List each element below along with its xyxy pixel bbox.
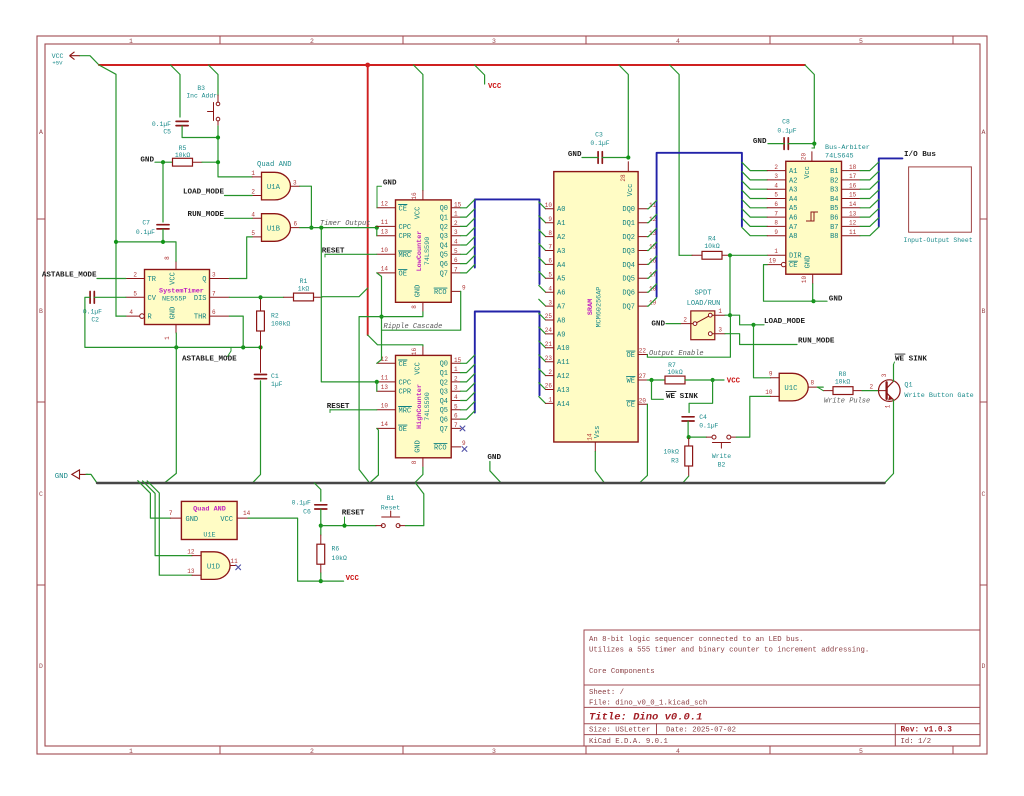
svg-text:8: 8 [548,230,552,237]
svg-text:1: 1 [164,336,171,340]
junction C7/VCC row [161,240,165,244]
svg-text:17: 17 [649,272,657,279]
svg-text:A6: A6 [789,215,797,223]
555 pin 2 TR [126,278,145,280]
bus entries 74LS645 B pins [860,162,879,171]
svg-text:LOAD_MODE: LOAD_MODE [183,188,224,196]
svg-text:Core Components: Core Components [589,668,655,676]
HighCounter pin 11 CPC [377,381,396,383]
svg-text:VCC: VCC [415,362,423,375]
svg-text:KiCad E.D.A. 9.0.1: KiCad E.D.A. 9.0.1 [589,738,668,746]
svg-text:A8: A8 [557,317,565,325]
wire timer output down to HighCounter CPC [321,228,377,382]
wire C4 to junction [687,421,689,437]
svg-text:19: 19 [769,257,777,264]
svg-text:1: 1 [718,308,722,315]
svg-text:A7: A7 [557,304,565,312]
svg-text:Write Button Gate: Write Button Gate [904,392,973,400]
74LS645 pin A4 [767,198,786,200]
svg-text:Inc Addr: Inc Addr [186,93,217,100]
svg-text:Q7: Q7 [440,426,448,434]
junction THR column [241,345,245,349]
svg-text:11: 11 [231,558,239,565]
svg-text:CE: CE [789,262,797,270]
svg-text:C5: C5 [163,129,171,136]
wire C1 bottom to GND rail [252,381,260,483]
svg-text:2: 2 [548,369,552,376]
junction 555 GND on astable row [174,345,178,349]
LowCounter pin Q5 [451,253,460,255]
LowCounter pin Q6 [451,263,460,265]
74LS645 pin A6 [767,216,786,218]
U1B pin 6 output [291,227,300,229]
SRAM pin A5 [546,277,554,279]
svg-text:TR: TR [148,276,157,284]
wire 74LS645 GND pin 10 down [812,284,814,301]
U1C pin 8 output [808,386,817,388]
junction R7 right [711,378,715,382]
SRAM pin 22 OE [638,354,647,356]
555 pin 3 Q [210,278,230,280]
svg-text:0.1µF: 0.1µF [590,140,609,147]
svg-text:7: 7 [212,290,216,297]
junction R5/B3 [216,160,220,164]
svg-text:A4: A4 [789,196,797,204]
SPDT pin 1 [712,314,725,316]
wire C8 to 74LS645 Vcc [788,143,814,145]
svg-text:Vcc: Vcc [804,166,812,179]
74LS645 pin B1 [842,170,861,172]
svg-text:R6: R6 [332,545,340,552]
svg-text:B5: B5 [830,205,838,213]
svg-text:12: 12 [849,220,857,227]
74LS645 pin B5 [842,207,861,209]
svg-text:R5: R5 [179,145,187,152]
svg-text:17: 17 [849,173,857,180]
svg-text:DIS: DIS [194,295,207,303]
555 pin 4 R with bubble [126,315,140,317]
74LS645 pin B6 [842,216,861,218]
capacitor C6 [315,504,327,506]
svg-text:Reset: Reset [381,504,400,511]
svg-text:VCC: VCC [346,575,360,583]
wire rail to U1D pin 13 [147,481,192,575]
svg-text:C2: C2 [91,317,99,324]
svg-text:OE: OE [627,352,635,360]
wire B1 to rail [406,483,424,526]
junction GND chain [379,315,383,319]
svg-text:4: 4 [251,211,255,218]
junction R2/C1 column [258,345,262,349]
wire R4 to DIR [730,254,767,256]
svg-text:LowCounter: LowCounter [416,231,424,272]
wire C7 column [162,162,164,222]
svg-text:U1C: U1C [784,385,798,393]
svg-text:GND: GND [383,180,397,188]
capacitor C1 [260,347,262,372]
wire VCC diagonal drop to R4 [670,65,679,255]
svg-text:Q5: Q5 [440,252,448,260]
svg-text:16: 16 [649,258,657,265]
svg-text:MRC: MRC [399,407,412,415]
svg-text:7: 7 [454,422,458,429]
svg-text:C4: C4 [699,414,707,421]
svg-text:A14: A14 [557,401,570,409]
U1D pin 12 [192,555,201,557]
bus entries HighCounter Q0-Q6 to bus [461,355,475,363]
svg-text:4: 4 [676,38,680,45]
wire from VCC label to VCC rail [80,56,99,65]
HighCounter pin Q6 [451,418,460,420]
svg-text:2: 2 [870,383,874,390]
svg-text:1: 1 [454,366,458,373]
title block outline [584,629,980,631]
bus entries to SRAM A0-A7 [539,202,546,209]
svg-text:Q6: Q6 [440,261,448,269]
svg-text:Q2: Q2 [440,224,448,232]
wire SRAM OE to DIR net [647,315,730,357]
svg-text:2: 2 [310,748,314,755]
svg-text:A: A [982,129,986,136]
svg-text:8: 8 [164,256,171,260]
svg-text:OE: OE [399,270,407,278]
svg-text:SPDT: SPDT [695,290,712,298]
wire C7 bottom to VCC row [162,229,164,242]
resistor R2 [260,297,262,311]
svg-text:Size: USLetter: Size: USLetter [589,727,650,735]
wire R7 right to VCC [685,379,724,381]
svg-text:U1A: U1A [267,184,281,192]
svg-text:9: 9 [462,440,466,447]
LowCounter pin 13 CPR [377,235,396,237]
SRAM pin DQ7 [638,305,647,307]
red VCC vertical wire [367,65,369,335]
junction RESET label [342,524,346,528]
svg-text:26: 26 [545,383,553,390]
svg-text:27: 27 [639,373,647,380]
svg-text:A3: A3 [789,187,797,195]
555 pin 6 THR [210,315,230,317]
svg-text:Write Pulse: Write Pulse [824,398,870,406]
HighCounter pin 16 VCC [422,346,424,355]
U1A pin 2 [252,195,261,197]
junction U1A output [309,226,313,230]
svg-text:14: 14 [849,201,857,208]
wire SPDT pin3 to RUN_MODE [725,334,797,345]
svg-text:10: 10 [801,276,808,284]
bus low address byte [475,199,540,284]
frame column ticks [219,36,221,44]
SRAM pin A8 [546,319,554,321]
svg-text:HighCounter: HighCounter [416,384,424,429]
svg-text:1: 1 [548,397,552,404]
svg-text:CE: CE [627,402,635,410]
HighCounter pin Q3 [451,390,460,392]
wire DIS to R1 [229,296,283,298]
bus I/O to sheet [879,158,903,226]
svg-text:Rev: v1.0.3: Rev: v1.0.3 [901,727,953,735]
svg-text:2: 2 [454,220,458,227]
svg-text:7: 7 [548,244,552,251]
svg-text:1: 1 [251,170,255,177]
junction GND 645 [811,299,815,303]
svg-text:6: 6 [774,201,778,208]
svg-text:12: 12 [649,216,657,223]
svg-text:1: 1 [885,404,892,408]
wire VCC diagonal drop to C5 [171,65,181,117]
svg-text:10kΩ: 10kΩ [835,378,851,385]
junction C4/R3/B2 [687,435,691,439]
wire 555 R pin to VCC column [116,315,126,317]
SRAM pin A0 [546,208,554,210]
SRAM pin A12 [546,375,554,377]
SRAM pin A9 [546,333,554,335]
svg-text:DQ2: DQ2 [622,234,635,242]
74LS645 pin 10 GND [812,274,814,284]
resistor R6 [320,526,322,535]
junction LOAD_MODE [751,323,755,327]
svg-text:WE SINK: WE SINK [895,356,927,364]
svg-text:13: 13 [187,568,195,575]
wire VCC down-left to left column [99,65,116,316]
wire to VCC label [321,580,344,582]
svg-text:3: 3 [212,272,216,279]
svg-text:DQ7: DQ7 [622,304,635,312]
svg-text:2: 2 [683,317,687,324]
svg-text:23: 23 [545,355,553,362]
svg-text:Sheet: /: Sheet: / [589,689,624,697]
74LS645 pin B4 [842,198,861,200]
svg-text:24: 24 [545,327,553,334]
wire GND to SPDT pin 2 [666,323,681,325]
wire 74LS645 CE to GND [764,265,814,302]
svg-text:20: 20 [639,397,647,404]
svg-text:I/O Bus: I/O Bus [904,151,936,159]
capacitor C2 [89,292,91,304]
svg-text:4: 4 [129,309,133,316]
wire DIR pull to SPDT [729,255,731,315]
svg-text:Q1: Q1 [440,370,448,378]
svg-text:15: 15 [849,192,857,199]
svg-text:25: 25 [545,313,553,320]
U1B pin 4 [252,217,261,219]
svg-text:DQ6: DQ6 [622,290,635,298]
svg-text:An 8-bit logic sequencer conne: An 8-bit logic sequencer connected to an… [589,636,804,644]
svg-text:B3: B3 [830,187,838,195]
junction at LowCounter CPC [375,226,379,230]
svg-text:5: 5 [454,248,458,255]
junction HighCounter CPC [375,380,379,384]
svg-text:0.1µF: 0.1µF [777,128,796,135]
junction timer column [319,226,323,230]
svg-text:DIR: DIR [789,253,802,261]
svg-text:14: 14 [381,421,389,428]
svg-text:C7: C7 [142,220,150,227]
SRAM pin 14 Vss [594,442,596,452]
svg-text:21: 21 [545,341,553,348]
LowCounter pin 12 CE [377,207,396,209]
SRAM pin DQ3 [638,250,647,252]
wire Q1 collector to WE SINK [893,365,895,382]
and-gate U1B [262,214,291,242]
HighCounter pin Q1 [451,372,460,374]
red junction at VCC column [365,63,370,68]
svg-text:A9: A9 [557,331,565,339]
74LS645 pin 19 CE with bubble [767,264,781,266]
svg-text:10: 10 [381,403,389,410]
SPDT pin 3 [712,333,725,335]
svg-text:C: C [982,491,986,498]
svg-text:1: 1 [454,211,458,218]
SRAM pin 20 CE [638,403,647,405]
svg-text:7: 7 [169,510,173,517]
SRAM pin 27 WE [638,379,647,381]
svg-text:RUN_MODE: RUN_MODE [798,338,835,346]
svg-text:3: 3 [492,748,496,755]
svg-text:3: 3 [492,38,496,45]
svg-text:A2: A2 [789,177,797,185]
svg-text:1: 1 [129,748,133,755]
74LS645 pin 1 DIR [767,254,786,256]
svg-text:Date: 2025-07-02: Date: 2025-07-02 [666,727,736,735]
SRAM pin A1 [546,222,554,224]
LowCounter pin Q4 [451,244,460,246]
memory U5 SRAM MCM60256AP body [554,172,638,442]
svg-text:3: 3 [774,173,778,180]
svg-text:CE: CE [399,205,407,213]
svg-text:6: 6 [212,309,216,316]
74LS645 pin 20 Vcc [811,152,813,162]
svg-text:11: 11 [849,229,857,236]
svg-text:CPC: CPC [399,379,412,387]
HighCounter pin 12 CE [377,362,396,364]
svg-text:9: 9 [774,229,778,236]
LowCounter pin 8 GND [422,302,424,312]
wire timer output [300,227,377,229]
svg-text:10: 10 [765,389,773,396]
svg-text:10kΩ: 10kΩ [667,369,683,376]
svg-text:B2: B2 [718,462,726,469]
svg-text:A6: A6 [557,290,565,298]
SRAM pin A11 [546,361,554,363]
wire R1 to red VCC vertical [322,288,368,297]
svg-text:18: 18 [649,285,657,292]
wire 555 GND net down to rail [164,347,176,483]
wire C3 to SRAM Vcc [602,157,628,159]
svg-text:3: 3 [548,299,552,306]
wire U1E VCC to VCC junction [248,518,321,581]
wire THR to astable row [229,316,243,347]
junction R4/DIR [728,253,732,257]
wire CPC-CPR tie [376,228,378,236]
svg-text:A7: A7 [789,224,797,232]
svg-text:9: 9 [769,371,773,378]
bus high address byte [475,312,540,413]
svg-text:11: 11 [381,219,389,226]
svg-text:B3: B3 [197,85,205,92]
HighCounter pin Q4 [451,400,460,402]
svg-text:A12: A12 [557,373,570,381]
local label WE SINK at R7 [652,380,664,399]
svg-text:B1: B1 [387,495,395,502]
svg-text:DQ3: DQ3 [622,248,635,256]
wire ASTABLE_MODE to TR [97,278,126,280]
svg-text:LOAD_MODE: LOAD_MODE [764,318,805,326]
svg-text:3: 3 [454,229,458,236]
wire VCC row into 555 VCC pin 8 [116,242,176,262]
bus entries to 74LS645 A pins [742,162,767,170]
svg-text:ASTABLE_MODE: ASTABLE_MODE [182,356,237,364]
wire Vcc pin 20 feed [813,144,815,148]
SRAM pin DQ2 [638,236,647,238]
svg-text:B2: B2 [830,177,838,185]
svg-text:DQ1: DQ1 [622,220,635,228]
svg-text:18: 18 [849,164,857,171]
svg-text:VCC: VCC [727,378,741,386]
HighCounter pin 14 OE [377,427,396,429]
svg-text:VCC: VCC [170,272,178,285]
junction C3/Vcc [626,155,630,159]
junction B3/C5 [216,135,220,139]
LowCounter pin 14 OE [377,272,396,274]
svg-text:4: 4 [548,285,552,292]
VCC red feeder wire across top [99,64,805,66]
svg-text:13: 13 [381,384,389,391]
svg-text:10kΩ: 10kΩ [704,243,720,250]
svg-text:R3: R3 [671,458,679,465]
wire GND label to rail [86,474,97,483]
svg-text:A13: A13 [557,387,570,395]
74LS645 pin B8 [842,235,861,237]
svg-text:6: 6 [548,258,552,265]
svg-text:A5: A5 [789,205,797,213]
svg-text:GND: GND [140,157,154,165]
svg-text:CPR: CPR [399,389,412,397]
svg-text:+5V: +5V [52,60,63,67]
U1C pin 9 [771,377,780,379]
svg-text:5: 5 [133,290,137,297]
svg-text:GND: GND [568,151,582,159]
svg-text:RUN_MODE: RUN_MODE [188,211,225,219]
svg-text:DQ4: DQ4 [622,262,635,270]
svg-text:13: 13 [849,210,857,217]
LowCounter pin Q3 [451,235,460,237]
svg-text:U1B: U1B [267,226,281,234]
svg-text:Vss: Vss [594,426,602,439]
LowCounter pin 10 MRC [377,253,396,255]
svg-text:1: 1 [774,248,778,255]
LowCounter pin 9 RCO [451,290,461,292]
wire HighCounter OE to rail [370,428,379,483]
svg-text:22: 22 [639,348,647,355]
HighCounter pin 8 GND [422,458,424,467]
HighCounter pin Q0 [451,362,460,364]
no-connect X at HighCounter Q7 [460,426,465,431]
svg-text:6: 6 [454,413,458,420]
wire ripple cascade RCO to CE chain [382,291,461,330]
74LS645 pin B3 [842,188,861,190]
svg-text:THR: THR [194,314,207,322]
svg-text:2: 2 [133,272,137,279]
svg-text:3: 3 [454,385,458,392]
svg-text:A8: A8 [789,233,797,241]
SRAM pin A6 [546,291,554,293]
wire VCC diagonal drop to counter VCC pin 16 [414,65,423,191]
svg-text:GND: GND [487,454,501,462]
svg-text:VCC: VCC [220,516,233,524]
SRAM pin DQ6 [638,291,647,293]
wire U1C output to R8 [817,386,823,388]
